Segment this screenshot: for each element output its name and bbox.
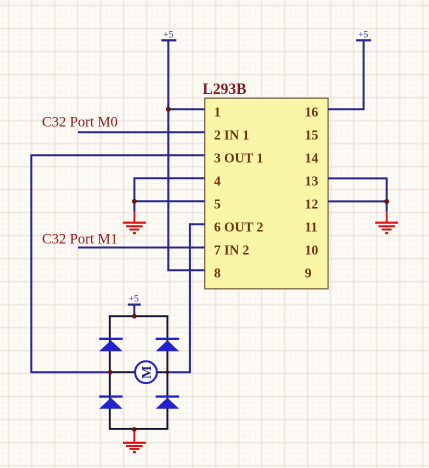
svg-text:7 IN 2: 7 IN 2 xyxy=(214,243,250,258)
svg-text:12: 12 xyxy=(305,197,319,212)
svg-text:3 OUT 1: 3 OUT 1 xyxy=(214,151,264,166)
svg-text:+5: +5 xyxy=(358,31,368,41)
svg-text:L293B: L293B xyxy=(203,81,247,98)
svg-text:5: 5 xyxy=(214,197,221,212)
svg-text:8: 8 xyxy=(214,266,221,281)
svg-text:4: 4 xyxy=(214,174,221,189)
svg-text:14: 14 xyxy=(305,151,319,166)
svg-text:C32 Port M0: C32 Port M0 xyxy=(42,115,118,131)
svg-text:6 OUT 2: 6 OUT 2 xyxy=(214,220,264,235)
svg-text:1: 1 xyxy=(214,105,221,120)
svg-text:16: 16 xyxy=(305,105,319,120)
svg-text:M: M xyxy=(140,366,155,379)
svg-text:15: 15 xyxy=(305,128,319,143)
svg-text:C32 Port M1: C32 Port M1 xyxy=(42,232,118,248)
svg-text:11: 11 xyxy=(305,220,318,235)
svg-text:13: 13 xyxy=(305,174,319,189)
svg-text:2 IN 1: 2 IN 1 xyxy=(214,128,250,143)
svg-text:10: 10 xyxy=(305,243,319,258)
svg-text:9: 9 xyxy=(305,266,312,281)
svg-text:+5: +5 xyxy=(163,31,173,41)
svg-text:+5: +5 xyxy=(129,295,139,305)
